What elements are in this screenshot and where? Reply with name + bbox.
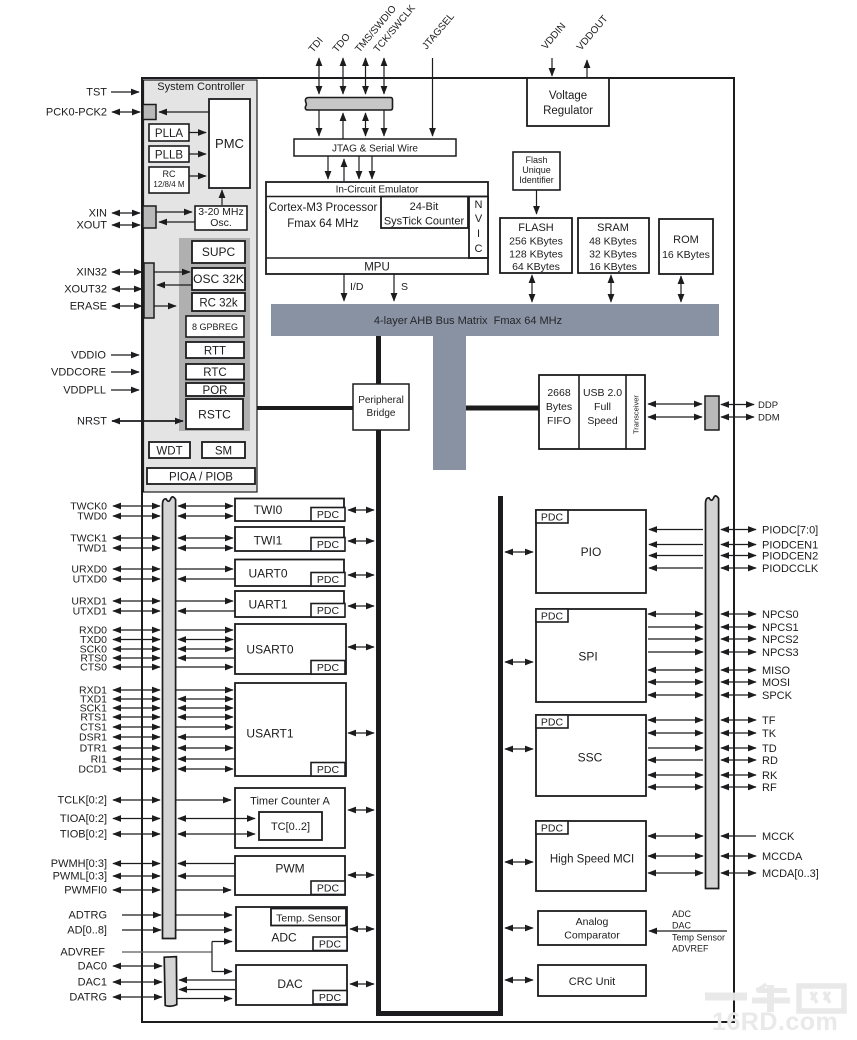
svg-text:ADTRG: ADTRG	[69, 910, 108, 922]
wire RXD0	[113, 629, 160, 631]
wire MCI-pad y836	[648, 835, 703, 837]
svg-text:PDC: PDC	[541, 511, 564, 523]
svg-text:MPU: MPU	[364, 262, 390, 274]
wire ERASE	[112, 305, 142, 307]
svg-text:Osc.: Osc.	[210, 217, 232, 229]
svg-text:PIO: PIO	[581, 545, 602, 559]
svg-text:Bytes: Bytes	[546, 401, 572, 413]
wire pad-peripheral y737	[178, 736, 235, 738]
svg-text:ERASE: ERASE	[70, 301, 107, 313]
block RC 32k	[192, 293, 245, 311]
svg-text:PDC: PDC	[317, 574, 340, 586]
svg-text:PLLA: PLLA	[155, 128, 183, 140]
svg-text:VDDCORE: VDDCORE	[51, 367, 106, 379]
wire JTAG to ICE 1	[327, 156, 329, 179]
wire SCK0	[113, 648, 160, 650]
wire DATRG in	[177, 998, 232, 1000]
wire pad-peripheral y611	[178, 610, 235, 612]
wire DAC to peripheral bus	[350, 983, 374, 985]
svg-text:16RD.com: 16RD.com	[712, 1008, 838, 1035]
wire XOUT	[112, 224, 140, 226]
svg-text:NPCS0: NPCS0	[762, 609, 799, 621]
svg-text:MOSI: MOSI	[762, 677, 790, 689]
svg-text:TK: TK	[762, 728, 777, 740]
block PLLB	[149, 146, 189, 162]
wire PWML	[178, 875, 235, 877]
svg-text:XIN32: XIN32	[76, 267, 107, 279]
wire pad-JTAG bidir (TMS)	[365, 113, 367, 136]
svg-text:8 GPBREG: 8 GPBREG	[192, 322, 238, 332]
svg-text:Identifier: Identifier	[519, 175, 554, 185]
svg-text:DAC1: DAC1	[78, 977, 107, 989]
svg-text:MCCDA: MCCDA	[762, 851, 803, 863]
svg-text:MISO: MISO	[762, 665, 791, 677]
USART0 PDC	[311, 661, 345, 675]
svg-text:2668: 2668	[547, 387, 571, 399]
wire pad to PIO y544.5	[649, 544, 703, 546]
PWM PDC	[311, 881, 345, 895]
svg-text:XIN: XIN	[89, 208, 107, 220]
svg-text:TC[0..2]: TC[0..2]	[271, 821, 310, 833]
block TC[0..2]	[259, 812, 322, 840]
block Analog Comparator	[538, 911, 646, 945]
TWI0 PDC	[311, 508, 345, 522]
svg-text:WDT: WDT	[156, 446, 182, 458]
svg-text:Bridge: Bridge	[367, 408, 396, 419]
wire pad-peripheral y538	[178, 537, 233, 539]
svg-text:RTC: RTC	[203, 367, 226, 379]
block ROM	[659, 219, 713, 274]
wire TIOB to TC	[178, 833, 255, 835]
wire VDDPLL	[111, 389, 139, 391]
wire Timer Counter A to peripheral bus	[348, 809, 374, 811]
svg-text:In-Circuit Emulator: In-Circuit Emulator	[336, 185, 419, 196]
block POR	[186, 383, 244, 396]
wire RC to PMC	[189, 175, 206, 177]
wire TIOA to TC	[178, 818, 255, 820]
AHB trunk	[433, 336, 466, 470]
wire SPI-pad y614	[648, 613, 703, 615]
svg-text:PWML[0:3]: PWML[0:3]	[53, 871, 107, 883]
wire PIODCCLK	[721, 567, 756, 569]
svg-text:Regulator: Regulator	[543, 105, 593, 117]
wire RSTC to Peripheral Bridge	[257, 406, 353, 410]
svg-text:UART1: UART1	[248, 598, 287, 612]
svg-text:DCD1: DCD1	[78, 764, 107, 776]
SSC PDC	[536, 715, 568, 728]
svg-text:12/8/4 M: 12/8/4 M	[153, 180, 184, 189]
svg-text:MCCK: MCCK	[762, 831, 795, 843]
svg-text:PDC: PDC	[317, 882, 340, 894]
svg-text:FIFO: FIFO	[547, 415, 571, 427]
wire AD[0..8]	[122, 929, 161, 931]
block RTC	[186, 364, 244, 380]
wire pad to JTAG box (TDI)	[318, 110, 320, 136]
wire VDDIO	[111, 354, 139, 356]
wire ERASE to group	[154, 305, 176, 307]
wire TCK/SWCLK	[383, 58, 385, 94]
wire PMC to PCK pad	[159, 111, 209, 113]
wire SSC-pad y720	[648, 719, 703, 721]
wire MOSI	[721, 681, 756, 683]
wire NPCS2	[721, 638, 756, 640]
wire pad to JTAG box (TCK)	[383, 110, 385, 136]
wire RTS0	[113, 657, 160, 659]
wire UTXD1	[113, 610, 160, 612]
wire pad-peripheral y769	[178, 768, 233, 770]
wire SPI-pad y695	[648, 694, 703, 696]
left IO pad	[163, 497, 176, 939]
wire Osc to PMC	[221, 190, 223, 205]
block In-Circuit Emulator	[266, 182, 488, 274]
watermark	[705, 984, 844, 1012]
wire pad-peripheral y727	[176, 726, 233, 728]
wire TCLK[0:2]	[113, 799, 160, 801]
wire USART1 to peripheral bus	[348, 732, 374, 734]
svg-text:DAC: DAC	[672, 921, 692, 931]
svg-text:PWM: PWM	[275, 862, 304, 876]
block 3-20 MHz Osc.	[195, 206, 247, 230]
svg-text:XOUT32: XOUT32	[64, 284, 107, 296]
wire pad-peripheral y639.5	[178, 639, 233, 641]
pad PCK0-PCK2	[143, 105, 156, 120]
wire PCK0-PCK2	[112, 111, 140, 113]
svg-text:NRST: NRST	[77, 416, 107, 428]
wire SSC-pad y760	[648, 759, 703, 761]
svg-text:MCDA[0..3]: MCDA[0..3]	[762, 868, 819, 880]
block 24-Bit SysTick Counter	[381, 197, 468, 229]
wire MCCDA	[721, 855, 756, 857]
USART1 PDC	[311, 763, 345, 777]
svg-text:SUPC: SUPC	[202, 245, 236, 259]
wire UART1 to peripheral bus	[348, 605, 374, 607]
wire PWML[0:3]	[113, 875, 160, 877]
wire RK	[721, 774, 756, 776]
svg-text:PDC: PDC	[319, 938, 342, 950]
block RTT	[186, 342, 244, 358]
UART0 PDC	[311, 573, 345, 587]
wire pad-peripheral y748	[178, 747, 233, 749]
wire TWI1 to peripheral bus	[348, 540, 374, 542]
svg-text:Analog: Analog	[576, 916, 609, 928]
svg-text:Temp Sensor: Temp Sensor	[672, 933, 725, 943]
svg-text:Temp. Sensor: Temp. Sensor	[276, 913, 341, 925]
PIO PDC	[536, 510, 568, 523]
svg-text:USB 2.0: USB 2.0	[583, 387, 622, 399]
svg-text:I: I	[477, 228, 480, 240]
svg-text:PDC: PDC	[319, 992, 342, 1004]
svg-text:DDM: DDM	[758, 413, 780, 424]
wire pad-peripheral y699	[178, 698, 233, 700]
svg-text:PWMFI0: PWMFI0	[64, 885, 107, 897]
wire VDDCORE	[111, 371, 139, 373]
svg-text:XOUT: XOUT	[76, 220, 107, 232]
wire TXD0	[113, 639, 160, 641]
wire MISO	[721, 669, 756, 671]
wire XOUT32	[112, 288, 142, 290]
block NVIC	[469, 197, 488, 259]
svg-text:JTAG & Serial Wire: JTAG & Serial Wire	[332, 144, 418, 155]
DAC IO pad	[164, 957, 177, 1007]
svg-text:Comparator: Comparator	[564, 930, 620, 942]
svg-text:USART0: USART0	[246, 643, 293, 657]
wire SPI-pad y639	[648, 638, 703, 640]
wire PWMH	[178, 863, 235, 865]
wire transceiver-pad 2	[648, 416, 702, 418]
svg-text:UTXD1: UTXD1	[73, 606, 108, 618]
wire XIN	[112, 212, 140, 214]
svg-text:FLASH: FLASH	[518, 222, 554, 234]
wire PWMH[0:3]	[113, 863, 160, 865]
svg-text:DAC0: DAC0	[78, 961, 107, 973]
wire pad to OSC 32K	[154, 271, 190, 273]
wire pad-peripheral y658	[178, 657, 235, 659]
wire SPI-pad y627	[648, 626, 703, 628]
svg-text:PDC: PDC	[541, 822, 564, 834]
wire pad-peripheral y667	[176, 666, 233, 668]
wire SPCK	[721, 694, 756, 696]
svg-text:UTXD0: UTXD0	[73, 574, 108, 586]
svg-text:PDC: PDC	[317, 662, 340, 674]
svg-text:Peripheral: Peripheral	[358, 395, 404, 406]
wire CTS0	[113, 666, 160, 668]
wire NPCS1	[721, 626, 756, 628]
svg-text:PDC: PDC	[317, 509, 340, 521]
wire TCLK to Timer Counter A	[176, 799, 231, 801]
svg-text:DATRG: DATRG	[69, 992, 107, 1004]
wire TWD0	[113, 515, 160, 517]
wire DCD1	[113, 768, 160, 770]
wire PLLA to PMC	[189, 132, 206, 134]
svg-text:TIOB[0:2]: TIOB[0:2]	[60, 829, 107, 841]
wire pad-peripheral y649	[178, 648, 233, 650]
block High Speed MCI	[536, 821, 646, 891]
wire PIODCEN2	[721, 555, 756, 557]
wire PLLB to PMC	[189, 153, 206, 155]
wire RI1	[113, 758, 160, 760]
wire Osc to pad	[159, 221, 195, 223]
wire RF	[721, 786, 756, 788]
svg-text:Transceiver: Transceiver	[632, 395, 641, 434]
wire RTS1	[113, 716, 160, 718]
wire I/D to bus	[343, 274, 345, 301]
block 8 GPBREG	[186, 316, 244, 337]
wire PWM to peripheral bus	[348, 874, 374, 876]
wire S to bus	[393, 274, 395, 301]
svg-text:CRC Unit: CRC Unit	[569, 976, 615, 988]
HSMCI PDC	[536, 821, 568, 834]
svg-text:PWMH[0:3]: PWMH[0:3]	[51, 858, 107, 870]
wire pad-peripheral y579	[178, 578, 235, 580]
wire ADVREF to ADC	[212, 941, 232, 943]
block WDT	[149, 442, 190, 458]
wire SSC-pad y733	[648, 732, 703, 734]
wire SPI-pad y682	[648, 681, 703, 683]
svg-text:16 KBytes: 16 KBytes	[589, 261, 637, 273]
wire SCK1	[113, 707, 160, 709]
svg-text:PIODCEN2: PIODCEN2	[762, 550, 818, 562]
svg-text:ROM: ROM	[673, 234, 699, 246]
svg-text:N: N	[475, 199, 483, 211]
wire pad-peripheral y759	[178, 758, 235, 760]
wire NPCS3	[721, 651, 756, 653]
svg-text:AD[0..8]: AD[0..8]	[67, 925, 107, 937]
svg-text:SSC: SSC	[578, 751, 603, 765]
svg-text:48 KBytes: 48 KBytes	[589, 236, 637, 248]
wire ADVREF	[122, 951, 212, 953]
svg-text:TF: TF	[762, 715, 776, 727]
svg-text:PMC: PMC	[215, 136, 244, 151]
pad XIN/XOUT	[143, 206, 156, 228]
svg-text:TST: TST	[86, 87, 107, 99]
wire SSC to peripheral bus	[505, 748, 533, 750]
svg-text:RSTC: RSTC	[198, 408, 231, 422]
svg-text:Voltage: Voltage	[549, 90, 587, 102]
wire MCDA[0..3]	[721, 872, 756, 874]
svg-text:OSC 32K: OSC 32K	[193, 272, 244, 286]
TWI1 PDC	[311, 538, 345, 552]
block ADC	[236, 907, 347, 951]
svg-text:64 KBytes: 64 KBytes	[512, 261, 560, 273]
svg-text:RC 32k: RC 32k	[199, 298, 238, 310]
block DAC	[236, 965, 347, 1005]
wire PIO to peripheral bus	[505, 551, 533, 553]
block USART1	[235, 683, 346, 776]
wire PIODCEN1	[721, 544, 756, 546]
JTAG pad bar	[305, 98, 392, 111]
wire ADTRG	[122, 914, 161, 916]
pad DDP/DDM	[705, 396, 719, 430]
svg-text:TD: TD	[762, 743, 777, 755]
svg-text:Timer Counter A: Timer Counter A	[250, 796, 330, 808]
wire pad-peripheral y569	[176, 568, 233, 570]
ICE header divider	[266, 196, 488, 198]
wire SSC-pad y775	[648, 774, 703, 776]
svg-text:System Controller: System Controller	[157, 81, 245, 93]
block TWI1	[235, 527, 344, 551]
block PLLA	[149, 124, 189, 141]
svg-text:S: S	[401, 281, 408, 293]
svg-text:PDC: PDC	[317, 605, 340, 617]
wire pad to PIO y529.5	[649, 529, 703, 531]
block UART0	[235, 560, 344, 587]
wire pad-peripheral y690	[176, 689, 233, 691]
wire DSR1	[113, 736, 160, 738]
wire TMS/SWDIO	[365, 58, 367, 94]
wire FUI to FLASH	[536, 190, 538, 214]
USB divider 1	[578, 375, 580, 449]
block PWM	[235, 856, 345, 895]
wire MCI-pad y856	[648, 855, 703, 857]
wire DAC0	[113, 965, 162, 967]
block SUPC	[192, 241, 245, 263]
wire TWCK0	[113, 505, 160, 507]
wire TDI	[318, 58, 320, 94]
wire TST	[111, 91, 139, 93]
wire DATRG	[113, 996, 162, 998]
wire PWMFI0	[176, 889, 231, 891]
wire SSC-pad y748	[648, 747, 703, 749]
svg-text:High Speed MCI: High Speed MCI	[550, 854, 634, 866]
block SPI	[536, 609, 646, 702]
wire ADC to peripheral bus	[350, 928, 374, 930]
svg-text:NPCS1: NPCS1	[762, 622, 799, 634]
svg-text:SPI: SPI	[578, 650, 597, 664]
svg-text:VDDIO: VDDIO	[71, 350, 106, 362]
chip outer border	[142, 78, 734, 1022]
wire UART0 to peripheral bus	[348, 574, 374, 576]
block SM	[202, 442, 245, 458]
svg-text:TWI1: TWI1	[254, 534, 283, 548]
wire ROM to bus	[680, 276, 682, 302]
wire SSC-pad y787	[648, 786, 703, 788]
wire SRAM to bus	[610, 275, 612, 302]
wire SPI-pad y652	[648, 651, 703, 653]
wire pad-peripheral y506	[178, 505, 233, 507]
svg-text:TWD1: TWD1	[77, 543, 107, 555]
svg-text:PIOA / PIOB: PIOA / PIOB	[169, 472, 233, 484]
svg-text:ADVREF: ADVREF	[60, 947, 105, 959]
wire transceiver-pad 1	[648, 403, 702, 405]
wire CTS1	[113, 726, 160, 728]
block FLASH	[500, 218, 572, 273]
block PIO	[536, 510, 646, 593]
System Controller panel	[144, 80, 258, 492]
right IO pad	[706, 496, 719, 889]
USB divider 2	[625, 375, 627, 449]
block PMC	[209, 99, 250, 188]
svg-text:PIODC[7:0]: PIODC[7:0]	[762, 524, 818, 536]
svg-text:SPCK: SPCK	[762, 690, 793, 702]
wire RXD1	[113, 689, 160, 691]
block SRAM	[578, 218, 649, 273]
svg-text:Unique: Unique	[522, 165, 551, 175]
wire comparator inputs	[649, 930, 727, 932]
wire UTXD0	[113, 578, 160, 580]
wire XIN32	[112, 271, 142, 273]
svg-text:DAC: DAC	[277, 977, 303, 991]
svg-text:POR: POR	[203, 385, 228, 397]
wire DTR1	[113, 747, 160, 749]
svg-text:4-layer AHB Bus Matrix Fmax 6: 4-layer AHB Bus Matrix Fmax 64 MHz	[374, 315, 562, 327]
svg-text:256 KBytes: 256 KBytes	[509, 236, 563, 248]
wire CRC Unit to peripheral bus	[505, 979, 533, 981]
block SSC	[536, 715, 646, 796]
block RSTC	[186, 399, 243, 429]
wire RD	[721, 759, 756, 761]
wire NPCS0	[721, 613, 756, 615]
svg-text:VDDPLL: VDDPLL	[63, 385, 106, 397]
wire JTAG to ICE 2	[358, 156, 360, 179]
wire TD	[721, 747, 756, 749]
wire DAC1 out	[179, 989, 235, 991]
svg-text:PCK0-PCK2: PCK0-PCK2	[46, 107, 107, 119]
svg-text:TWI0: TWI0	[254, 503, 283, 517]
wire DAC1	[113, 981, 162, 983]
wire trunk to USB FIFO	[466, 406, 539, 411]
block Voltage Regulator	[527, 78, 609, 126]
wire SPI-pad y670	[648, 669, 703, 671]
svg-text:TCLK[0:2]: TCLK[0:2]	[57, 795, 107, 807]
wire pad-peripheral y548	[178, 547, 233, 549]
wire pad-peripheral y630	[176, 629, 233, 631]
svg-text:I/D: I/D	[350, 281, 364, 293]
block TWI0	[235, 499, 344, 522]
svg-text:NPCS3: NPCS3	[762, 647, 799, 659]
wire ICE to JTAG	[343, 159, 345, 181]
wire TWD1	[113, 547, 160, 549]
wire pad-peripheral y601	[176, 600, 233, 602]
